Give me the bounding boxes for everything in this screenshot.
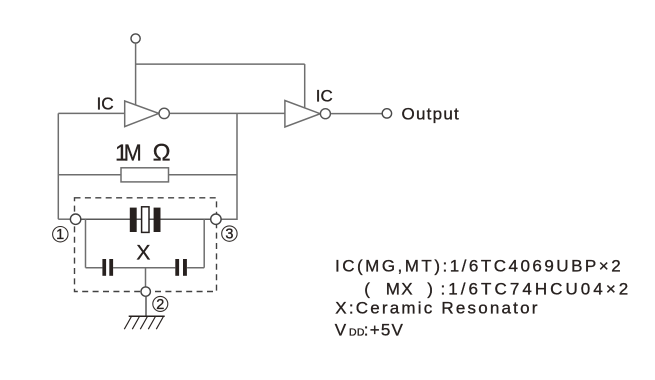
wire T1 down to U1 top edge [135,43,137,105]
wire resonator row node1 to node3 [81,218,211,220]
node label 1 (circled) [53,227,68,244]
wire center drop to node 2 [145,268,147,287]
terminal T1 (top open circle) [131,34,140,43]
ground hatch lines [124,316,163,329]
svg-text:(: ( [364,280,370,299]
wire down to U2 top edge [304,64,306,108]
op-amp U2 (inverter IC triangle) [285,101,320,128]
capacitor C2 plate a [175,259,179,276]
svg-text:1: 1 [56,227,64,243]
svg-text:X:Ceramic Resonator: X:Ceramic Resonator [335,299,539,318]
resonator X1 left electrode [130,208,137,232]
svg-text:Ω: Ω [153,140,171,167]
svg-text:DD: DD [349,326,365,338]
svg-text:IC: IC [316,86,333,105]
wire U2 output [331,113,382,115]
ground bar [129,315,165,317]
node 1 circle [70,214,80,224]
wire resistor left [58,174,121,176]
inverter bubble U1 [159,108,169,118]
svg-text:3: 3 [225,227,233,243]
svg-text:2: 2 [156,297,164,313]
capacitor C2 plate b [183,259,187,276]
note line 2: (MX) [364,280,631,299]
wire U1 output to U2 input [170,112,285,114]
svg-text:IC: IC [97,94,114,114]
svg-text:X: X [136,241,150,264]
dashed box (resonator unit) [75,198,217,292]
node 3 circle [211,214,221,224]
op-amp U1 (inverter IC triangle) [125,101,159,127]
resistor R1 body [121,168,169,182]
note line 4: VDD +5V [335,320,404,339]
wire right rail [221,113,237,219]
svg-text:V: V [335,320,347,339]
svg-text:MX: MX [386,280,414,299]
node label 2 (circled) [153,296,168,313]
capacitor C1 plate a [102,259,106,276]
node 2 circle [141,287,150,296]
wire resistor right [169,174,238,176]
node label 3 (circled) [222,226,237,243]
svg-text:IC(MG,MT):1/6TC4069UBP×2: IC(MG,MT):1/6TC4069UBP×2 [335,257,623,276]
svg-text:): ) [427,280,433,299]
resonator X1 crystal plate [142,207,149,233]
terminal T2 (output open circle) [382,109,391,118]
wire inner loop right [203,219,205,268]
wire left rail [57,113,59,219]
capacitor C1 plate b [109,259,113,276]
wire bottom left segment [86,267,103,269]
wire bottom middle segment [113,267,175,269]
resonator X1 right electrode [154,208,161,232]
svg-text::+5V: :+5V [364,320,404,339]
wire rail to node 1 [58,218,70,220]
wire top horizontal T1 to U2 branch [136,63,305,65]
wire inner loop left [85,219,87,268]
svg-text::1/6TC74HCU04×2: :1/6TC74HCU04×2 [441,280,632,299]
wire input U1 [58,112,124,114]
svg-text:Output: Output [402,104,461,123]
wire node 2 to ground [145,296,147,316]
svg-text:M: M [124,140,142,166]
inverter bubble U2 [320,109,330,119]
wire bottom right segment [187,267,204,269]
